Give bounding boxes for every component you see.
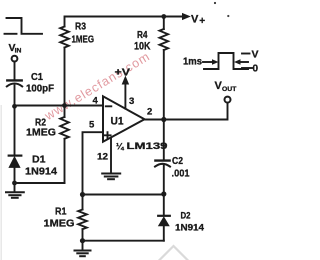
- svg-text:R4: R4: [137, 30, 148, 41]
- rail pin5/R1/C2/D2: [83, 194, 164, 196]
- svg-text:12: 12: [97, 152, 108, 163]
- svg-text:3: 3: [129, 96, 134, 107]
- resistor R1: [82, 195, 84, 210]
- resistor R4: [163, 17, 165, 30]
- terminal Vin: [12, 56, 18, 62]
- junction R1 bottom: [80, 238, 85, 243]
- svg-text:5: 5: [89, 120, 95, 131]
- svg-text:1MEG: 1MEG: [26, 127, 56, 139]
- svg-text:1MEG: 1MEG: [72, 35, 95, 46]
- resistor R3: [65, 17, 184, 27]
- wire C1 to node A: [14, 86, 16, 106]
- svg-text:+: +: [199, 16, 205, 27]
- junction pin5 rail: [80, 192, 85, 197]
- terminal Vout: [225, 97, 231, 103]
- resistor R2: [64, 106, 66, 118]
- svg-text:100pF: 100pF: [26, 83, 55, 95]
- capacitor C2: [163, 120, 165, 161]
- svg-text:V: V: [191, 14, 199, 26]
- svg-text:1MEG: 1MEG: [44, 218, 75, 230]
- diode D2: [163, 194, 165, 215]
- svg-text:C1: C1: [31, 71, 43, 83]
- arrow to V+: [183, 14, 190, 20]
- svg-text:D1: D1: [32, 154, 46, 166]
- svg-text:R1: R1: [55, 206, 67, 218]
- svg-text:1ms: 1ms: [183, 57, 202, 68]
- svg-text:OUT: OUT: [222, 86, 237, 93]
- junction output node: [161, 117, 166, 122]
- input pulse waveform: [5, 33, 17, 35]
- svg-text:10K: 10K: [134, 41, 151, 53]
- svg-text:IN: IN: [15, 48, 22, 55]
- watermark www.elecfans.com: [41, 49, 152, 123]
- ground symbol at pin 12: [110, 138, 112, 173]
- svg-text:LM139: LM139: [127, 141, 168, 152]
- speckle dots: [214, 2, 216, 4]
- svg-text:R3: R3: [75, 22, 86, 33]
- svg-text:4: 4: [93, 96, 99, 107]
- junction R3/R2: [62, 103, 67, 108]
- wire node A down to D1: [14, 106, 16, 156]
- wire node A row (to pin 4): [15, 105, 104, 107]
- svg-text:2: 2: [147, 107, 152, 118]
- op-amp U1 triangle: [103, 96, 145, 141]
- capacitor C1: [7, 79, 21, 81]
- svg-text:1N914: 1N914: [175, 223, 205, 234]
- ground symbol below R1: [82, 241, 84, 250]
- wire Vin terminal to C1: [14, 62, 16, 80]
- pin 3 +V arrow: [124, 82, 126, 109]
- output pulse waveform: [203, 61, 214, 63]
- wire ground rail D1-R2: [15, 182, 65, 184]
- watermark diamond logo: [160, 246, 188, 260]
- wire D1 to ground node: [14, 167, 16, 183]
- svg-text:.001: .001: [172, 169, 190, 180]
- ground symbol at D1: [14, 183, 16, 192]
- svg-text:D2: D2: [181, 211, 191, 222]
- wire R3 to node row: [64, 48, 66, 106]
- svg-text:+V: +V: [115, 68, 131, 79]
- svg-text:C2: C2: [172, 156, 183, 167]
- svg-text:0: 0: [253, 64, 259, 75]
- diode D1: [9, 155, 22, 157]
- plus input mark: [104, 132, 110, 138]
- waveform arrowheads: [212, 59, 219, 64]
- junction C2/D2 rail: [161, 191, 166, 196]
- svg-text:U1: U1: [111, 116, 124, 128]
- junction top rail R4: [161, 14, 166, 19]
- bottom rail R1-D2: [83, 240, 164, 242]
- scan edge artifact: [0, 105, 2, 260]
- minus input mark: [106, 105, 112, 107]
- output wire pin 2 to Vout: [145, 103, 228, 120]
- svg-text:1N914: 1N914: [25, 166, 57, 178]
- pin 5 wire: [83, 132, 104, 194]
- svg-text:V: V: [252, 49, 259, 61]
- junction D1 ground: [12, 181, 17, 186]
- junction node A: [12, 104, 17, 109]
